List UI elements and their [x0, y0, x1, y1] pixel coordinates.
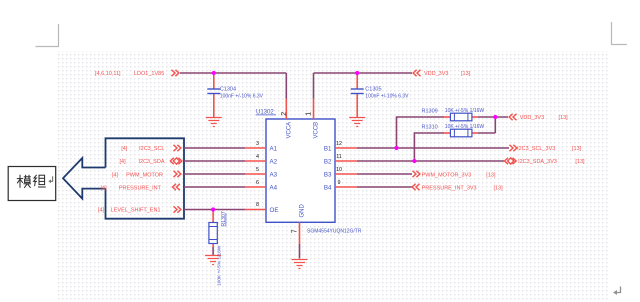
svg-text:A1: A1 [270, 145, 278, 152]
svg-text:VCCA: VCCA [287, 122, 293, 139]
svg-text:[4]: [4] [121, 146, 128, 152]
svg-text:[4]: [4] [101, 186, 108, 192]
svg-text:[4]: [4] [112, 173, 119, 179]
svg-text:PWM_MOTOR_3V3: PWM_MOTOR_3V3 [422, 173, 472, 179]
svg-text:I2C3_SCL_3V3: I2C3_SCL_3V3 [517, 146, 555, 152]
svg-text:100K +/-5% 1/16W: 100K +/-5% 1/16W [217, 245, 223, 286]
svg-text:B2: B2 [324, 158, 332, 165]
svg-text:A3: A3 [270, 171, 278, 178]
svg-text:[13]: [13] [572, 146, 582, 152]
svg-text:SGM4554YUQN12G/TR: SGM4554YUQN12G/TR [307, 228, 362, 234]
svg-text:12: 12 [336, 141, 342, 147]
svg-text:[13]: [13] [559, 115, 569, 121]
svg-text:A4: A4 [270, 184, 278, 191]
svg-text:I2C3_SDA_3V3: I2C3_SDA_3V3 [518, 159, 557, 165]
svg-text:A2: A2 [270, 158, 278, 165]
svg-text:[13]: [13] [461, 71, 471, 77]
svg-text:C1304: C1304 [220, 87, 236, 93]
svg-text:7: 7 [291, 229, 298, 233]
svg-text:B1: B1 [324, 145, 332, 152]
svg-text:B3: B3 [324, 171, 332, 178]
svg-text:5: 5 [256, 167, 259, 173]
svg-text:10K +/-5% 1/16W: 10K +/-5% 1/16W [445, 124, 485, 130]
svg-text:[4]: [4] [120, 159, 127, 165]
svg-text:I2C3_SCL: I2C3_SCL [139, 146, 164, 152]
svg-text:GND: GND [300, 204, 306, 218]
svg-text:10K +/-5% 1/16W: 10K +/-5% 1/16W [445, 108, 485, 114]
svg-text:[4]: [4] [98, 208, 105, 214]
svg-text:LDO1_1V85: LDO1_1V85 [134, 71, 164, 77]
svg-text:10: 10 [336, 167, 342, 173]
svg-text:C1305: C1305 [365, 87, 381, 93]
svg-text:PRESSURE_INT_3V3: PRESSURE_INT_3V3 [422, 186, 477, 192]
svg-text:PRESSURE_INT: PRESSURE_INT [119, 186, 162, 192]
svg-text:VCCB: VCCB [314, 122, 320, 139]
svg-text:2: 2 [281, 112, 288, 116]
svg-text:PWM_MOTOR: PWM_MOTOR [126, 173, 163, 179]
svg-text:3: 3 [256, 141, 259, 147]
svg-text:R1310: R1310 [422, 124, 438, 130]
svg-text:8: 8 [256, 202, 259, 208]
svg-text:[13]: [13] [486, 173, 496, 179]
svg-text:[13]: [13] [575, 159, 585, 165]
svg-text:I2C3_SDA: I2C3_SDA [139, 159, 165, 165]
svg-text:100nF +/-10% 6.3V: 100nF +/-10% 6.3V [365, 94, 409, 100]
svg-text:4: 4 [256, 154, 259, 160]
svg-text:VDD_3V3: VDD_3V3 [424, 71, 448, 77]
svg-text:VDD_3V3: VDD_3V3 [520, 115, 544, 121]
svg-text:[13]: [13] [494, 186, 504, 192]
svg-text:OE: OE [270, 207, 279, 214]
svg-text:[4,6,10,11]: [4,6,10,11] [95, 71, 121, 77]
svg-text:11: 11 [336, 154, 342, 160]
svg-text:1: 1 [306, 112, 313, 116]
svg-text:9: 9 [338, 180, 341, 186]
svg-text:6: 6 [256, 180, 259, 186]
svg-text:R1309: R1309 [422, 108, 438, 114]
svg-text:100nF +/-10% 6.3V: 100nF +/-10% 6.3V [220, 94, 264, 100]
svg-text:B4: B4 [324, 184, 332, 191]
svg-text:LEVEL_SHIFT_EN1: LEVEL_SHIFT_EN1 [111, 208, 161, 214]
